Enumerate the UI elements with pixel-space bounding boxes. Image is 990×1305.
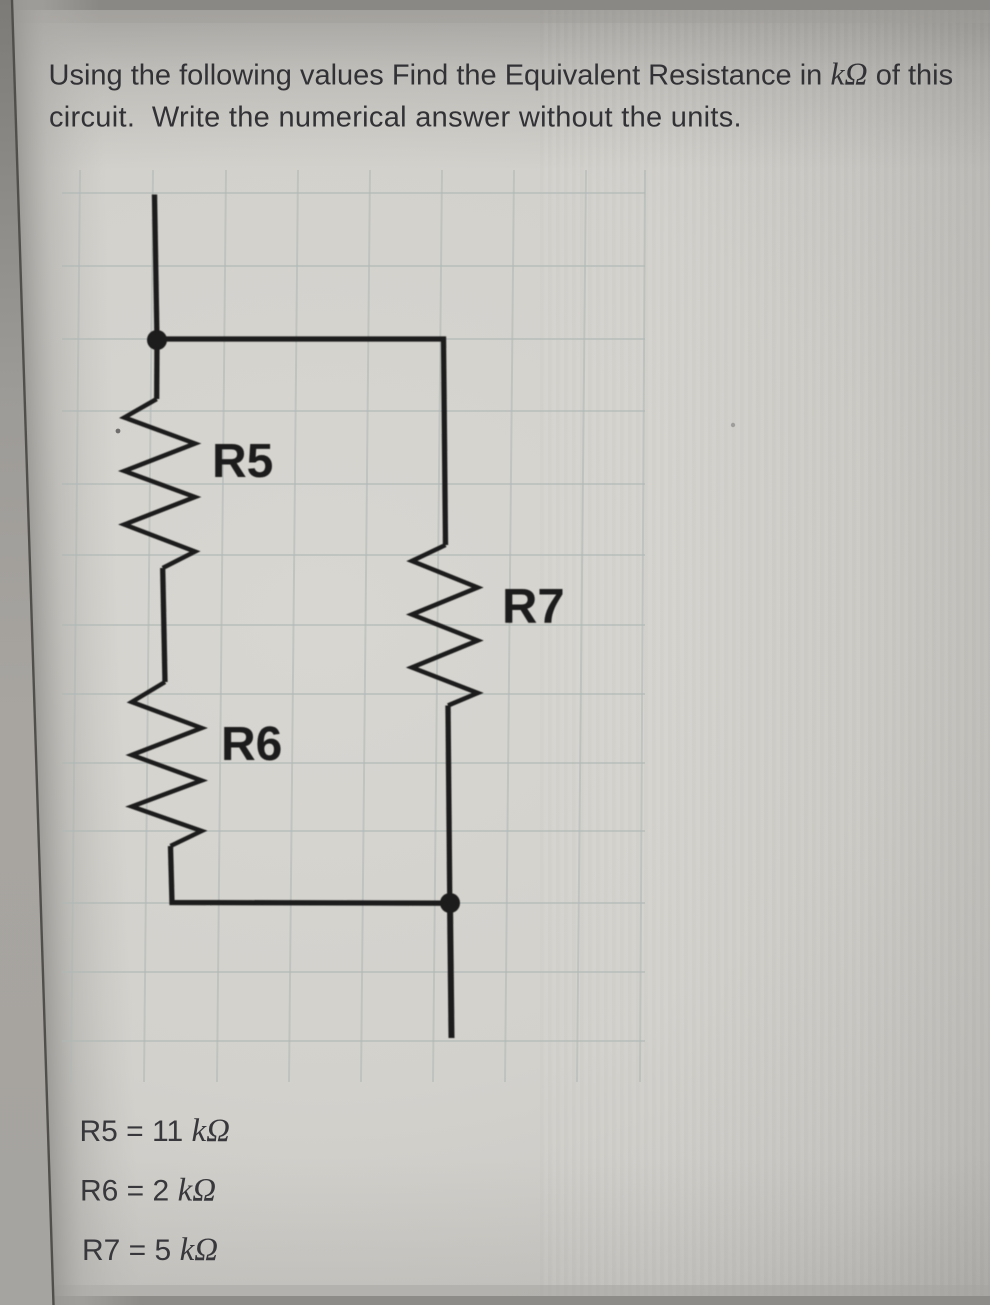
node B junction dot	[440, 893, 460, 913]
resistor R7	[412, 545, 478, 706]
wire: R5 bottom to R6 top	[163, 568, 165, 682]
wire: node A to R5 top	[154, 340, 160, 399]
wire: R7 bottom to node B	[448, 706, 450, 904]
resistor R6	[132, 682, 202, 846]
svg-text:Using the following values Fin: Using the following values Find the Equi…	[49, 56, 954, 92]
svg-text:circuit. Write the numerical: circuit. Write the numerical answer with…	[49, 102, 742, 134]
wire: source lead down to node A	[155, 195, 158, 341]
node A junction dot	[147, 330, 167, 350]
svg-text:R6: R6	[221, 718, 282, 771]
svg-text:R5: R5	[212, 435, 273, 488]
resistor R5	[124, 399, 195, 568]
svg-text:R7 = 5 kΩ: R7 = 5 kΩ	[82, 1232, 218, 1268]
svg-text:R5 = 11 kΩ: R5 = 11 kΩ	[80, 1113, 231, 1149]
svg-text:R6 = 2 kΩ: R6 = 2 kΩ	[80, 1173, 216, 1209]
wire: R6 bottom and bottom rail to node B	[171, 846, 451, 903]
wire: bottom lead below node B	[450, 903, 452, 1038]
svg-text:R7: R7	[502, 580, 565, 634]
wire: top rail from node A down to R7 top	[157, 339, 446, 545]
